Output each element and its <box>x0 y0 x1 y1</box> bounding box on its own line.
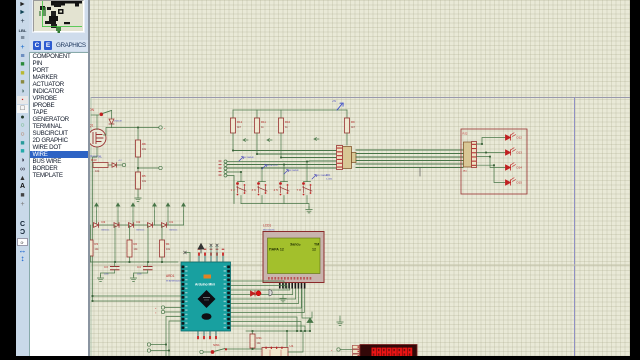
wire <box>231 289 304 313</box>
wire <box>93 295 182 297</box>
LED D12 <box>506 133 516 140</box>
ground <box>280 296 286 302</box>
wire <box>96 211 98 225</box>
wire pin stub <box>204 256 206 263</box>
svg-text:10k: 10k <box>166 248 171 251</box>
power terminal <box>182 203 186 211</box>
svg-text:R9: R9 <box>351 120 355 124</box>
svg-text:MDJ: MDJ <box>463 171 467 173</box>
svg-text:«: « <box>155 312 157 315</box>
arrow marker <box>267 139 272 142</box>
connector RJ2 <box>464 142 472 167</box>
svg-text:ТМ: ТМ <box>314 243 319 247</box>
wire <box>169 321 181 356</box>
terminal <box>337 348 340 351</box>
wire <box>238 182 245 204</box>
svg-text:10k: 10k <box>95 169 100 173</box>
LED D14 <box>506 163 516 170</box>
svg-text:RJ1: RJ1 <box>326 174 331 177</box>
LED D13 <box>506 148 516 155</box>
svg-text:SW1: SW1 <box>213 343 220 347</box>
svg-text:R3: R3 <box>95 242 99 246</box>
wire bottom rail <box>246 330 310 332</box>
wire <box>231 281 284 289</box>
wire <box>304 182 311 204</box>
power terminal <box>166 203 170 211</box>
Arduino ARD1 board <box>181 262 231 331</box>
svg-text:1k: 1k <box>261 126 264 129</box>
svg-text:10k: 10k <box>142 180 147 183</box>
wire <box>340 349 352 351</box>
svg-text:R31: R31 <box>257 336 263 340</box>
power terminal <box>131 203 135 211</box>
power terminal <box>307 318 313 331</box>
svg-text:10k: 10k <box>134 248 139 251</box>
svg-text:S6 1N4148: S6 1N4148 <box>289 169 299 172</box>
wire button risers <box>241 162 307 182</box>
svg-text:D13: D13 <box>517 151 523 155</box>
diode array <box>114 223 119 228</box>
svg-text:Запсь: Запсь <box>290 243 301 247</box>
ground flag above arduino <box>198 244 204 254</box>
arrow marker <box>243 139 248 142</box>
wire button ground rail <box>241 204 309 209</box>
wire top rail <box>233 109 347 111</box>
wire LCD ground drop <box>302 289 312 318</box>
arrow marker <box>314 138 319 141</box>
svg-text:ARD1: ARD1 <box>166 274 175 278</box>
terminal <box>224 167 227 170</box>
resistor R8 <box>137 128 139 141</box>
diode D4 <box>109 119 114 124</box>
terminal <box>224 160 227 163</box>
svg-text:Arduino Mini: Arduino Mini <box>195 283 215 287</box>
svg-text:ПАРА 12: ПАРА 12 <box>269 247 284 251</box>
label <box>284 170 288 174</box>
svg-text:+12: +12 <box>118 160 122 162</box>
wire pin stub <box>216 256 218 263</box>
LCD pin numbers <box>268 277 270 280</box>
svg-text:RJ2: RJ2 <box>463 132 468 136</box>
svg-text:D12: D12 <box>517 136 523 140</box>
Arduino bottom pins <box>197 331 199 336</box>
diode D5 <box>112 163 117 167</box>
wire <box>137 189 139 195</box>
wire <box>93 300 182 302</box>
schematic sheet top border <box>91 97 630 99</box>
wire <box>91 261 179 263</box>
push button SW 1 2 <box>236 182 239 185</box>
wire <box>132 211 134 225</box>
wire <box>111 124 113 128</box>
svg-text:4 5: 4 5 <box>274 188 279 192</box>
schematic sheet left border <box>90 98 92 356</box>
resistor R1 <box>161 225 163 240</box>
push button SW 4 5 <box>279 182 282 185</box>
power terminal <box>95 203 99 211</box>
wire <box>93 164 113 166</box>
wire pin stub <box>210 256 212 263</box>
svg-text:10k: 10k <box>257 342 262 345</box>
svg-text:1 2: 1 2 <box>231 188 236 192</box>
svg-text:12: 12 <box>312 247 316 251</box>
svg-text:4k7: 4k7 <box>351 126 356 129</box>
wire <box>286 331 288 347</box>
svg-text:5-1634: 5-1634 <box>326 179 333 181</box>
capacitor C4 <box>144 267 153 270</box>
svg-text:D1: D1 <box>170 220 174 224</box>
ground <box>130 275 136 281</box>
power terminal <box>153 203 157 211</box>
svg-text:R5: R5 <box>142 174 146 178</box>
svg-text:D14: D14 <box>517 166 523 170</box>
buzzer LS1 <box>269 290 272 296</box>
wire <box>231 289 299 304</box>
resistor R5 <box>136 172 141 189</box>
wire <box>91 114 99 116</box>
schematic sheet right border <box>574 98 576 356</box>
wire <box>154 211 156 225</box>
svg-text:1N4148: 1N4148 <box>114 121 122 123</box>
terminal <box>224 164 227 167</box>
svg-text:W/ ATMEGA328: W/ ATMEGA328 <box>166 280 182 283</box>
svg-text:R10: R10 <box>285 120 291 124</box>
Arduino orange tag <box>204 275 212 279</box>
LED D6 <box>251 291 256 296</box>
wire Q1 out <box>104 128 159 136</box>
svg-text:100n: 100n <box>104 274 109 276</box>
svg-text:7 8: 7 8 <box>297 188 302 192</box>
7-segment display DS1 <box>360 345 417 360</box>
switch arm <box>103 111 112 114</box>
svg-text:Q1: Q1 <box>89 124 93 128</box>
resistor R3 <box>90 225 92 240</box>
power terminal <box>337 103 343 110</box>
terminal <box>117 164 123 166</box>
wire <box>111 111 113 119</box>
capacitor C3 <box>111 267 120 270</box>
svg-text:10k: 10k <box>95 248 100 251</box>
power terminal <box>116 203 120 211</box>
wire <box>231 289 296 299</box>
wire <box>231 289 290 290</box>
wire <box>183 211 185 225</box>
grid major line <box>91 264 630 266</box>
resistor R10 <box>280 110 282 118</box>
wire terminal lines <box>227 162 309 204</box>
resistor R9 <box>346 110 348 118</box>
connector RJ1 <box>343 147 352 169</box>
wire <box>233 133 347 158</box>
wire <box>477 151 506 153</box>
Arduino oval pad <box>202 313 212 320</box>
terminal <box>159 166 162 169</box>
Arduino chip <box>198 290 216 308</box>
svg-text:LCD1: LCD1 <box>263 224 271 228</box>
svg-text:«: « <box>155 307 157 310</box>
ground <box>97 275 103 281</box>
ground <box>135 195 141 201</box>
resistor R31 <box>252 331 254 334</box>
terminal <box>147 343 150 346</box>
wire <box>477 165 506 182</box>
label <box>262 165 266 169</box>
svg-text:10k: 10k <box>142 148 147 151</box>
push button SW 7 8 <box>302 182 305 185</box>
diode D1 <box>162 223 167 228</box>
wire staircase to bottom rail <box>231 317 305 331</box>
svg-text:ON: ON <box>89 108 95 112</box>
push button SW 3 6 <box>257 182 260 185</box>
wire <box>117 211 119 225</box>
svg-text:4k7: 4k7 <box>237 126 242 129</box>
svg-text:R1: R1 <box>166 242 170 246</box>
crystal stubs <box>211 246 217 256</box>
svg-text:1k: 1k <box>285 126 288 129</box>
wire <box>288 331 303 352</box>
svg-text:D3: D3 <box>102 220 106 224</box>
svg-text:BZX55C: BZX55C <box>102 230 110 232</box>
wire <box>137 157 139 172</box>
wire Q1 drain <box>96 115 98 130</box>
LCD pins <box>279 283 281 289</box>
svg-text:3 6: 3 6 <box>252 188 257 192</box>
resistor R12 <box>232 110 234 118</box>
wire bus to RJ1 <box>227 151 337 169</box>
terminal <box>161 310 164 313</box>
terminal <box>224 174 227 177</box>
svg-text:R43: R43 <box>91 158 97 162</box>
wire elbow <box>185 253 190 263</box>
svg-text:BZX55C: BZX55C <box>137 230 145 232</box>
svg-text:R12: R12 <box>237 120 243 124</box>
terminal <box>224 171 227 174</box>
wire <box>231 289 301 308</box>
terminal <box>147 349 150 352</box>
LCD LCD1 <box>263 232 324 283</box>
wire <box>477 138 506 145</box>
svg-text:R11: R11 <box>261 120 266 124</box>
diode D2 <box>129 223 134 228</box>
switch contact dot <box>100 113 104 117</box>
ground <box>337 319 343 325</box>
7seg connector pins <box>353 345 360 349</box>
wire <box>227 348 262 350</box>
svg-text:«: « <box>331 349 333 352</box>
wire pin stub <box>198 256 200 263</box>
wire label tick <box>419 168 421 177</box>
wire <box>167 211 169 225</box>
wire diode row <box>93 224 184 226</box>
diode D3 <box>94 223 99 228</box>
wire bus RJ1 to RJ2 <box>356 150 463 168</box>
label <box>239 157 243 161</box>
wire pin stub <box>222 256 224 263</box>
subcircuit boundary RJ2 block <box>461 129 527 194</box>
svg-text:D2: D2 <box>137 220 141 224</box>
svg-text:+5V: +5V <box>332 101 337 103</box>
wire <box>259 182 266 204</box>
resistor R11 <box>256 110 258 118</box>
wire <box>166 317 181 357</box>
wire <box>91 225 163 262</box>
svg-text:C3: C3 <box>104 265 108 269</box>
label <box>312 175 316 179</box>
wire <box>231 289 293 295</box>
svg-text:C4: C4 <box>137 265 141 269</box>
svg-text:o: o <box>164 128 166 130</box>
wire <box>231 286 287 289</box>
LED D15 <box>506 178 516 185</box>
svg-text:R8: R8 <box>142 142 146 146</box>
svg-text:D15: D15 <box>517 181 523 185</box>
diode array <box>148 223 153 228</box>
resistor R2 <box>129 225 131 240</box>
svg-text:S2 1N4148: S2 1N4148 <box>244 156 254 159</box>
terminal <box>159 126 162 129</box>
ground <box>306 207 312 213</box>
wire <box>281 182 288 204</box>
svg-text:100n: 100n <box>137 274 142 276</box>
wire Q1 source rail <box>93 147 98 301</box>
svg-text:U1: U1 <box>290 344 294 348</box>
svg-text:BZX55C: BZX55C <box>170 230 178 232</box>
terminal <box>161 306 164 309</box>
junction <box>137 127 139 129</box>
svg-text:R2: R2 <box>134 242 138 246</box>
wire <box>477 157 506 168</box>
svg-text:S13 4-1-103: S13 4-1-103 <box>267 164 278 167</box>
